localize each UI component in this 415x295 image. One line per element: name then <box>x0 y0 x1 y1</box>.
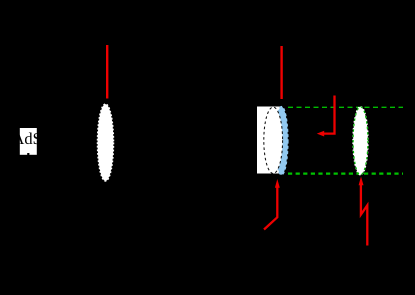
red zigzag arrow to right lens bottom (pointing up) <box>361 183 367 246</box>
white lens right green dashed outline <box>353 107 368 175</box>
red zigzag arrow head <box>359 177 364 186</box>
red arrow to cylinder head <box>275 179 280 188</box>
red arrow to cylinder bottom (pointing up) <box>264 187 277 230</box>
green dashed line top <box>288 106 403 108</box>
red line right (source above cylinder) <box>280 46 282 99</box>
cylinder body (white rectangle) <box>257 107 282 174</box>
white lens left <box>98 104 114 181</box>
bent red arrow head <box>317 131 324 137</box>
AdS label box <box>20 128 37 155</box>
AdS label text (vector outlines, clipped by black bg) <box>13 133 41 145</box>
white lens right <box>353 107 368 175</box>
bent red arrow (pointing left) <box>320 96 335 134</box>
AdS label notch <box>27 153 29 155</box>
red line left (source above left lens) <box>106 45 108 99</box>
cylinder right cap (blue ellipse) <box>275 107 288 175</box>
cylinder left cap (dashed ellipse) <box>264 107 283 173</box>
green dashed line bottom <box>288 173 403 175</box>
